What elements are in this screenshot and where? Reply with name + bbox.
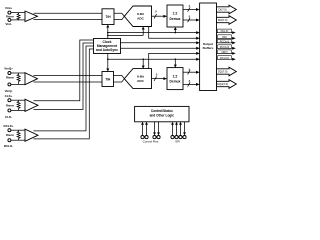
- output buffers block: [200, 3, 217, 91]
- bus ADC Q to demux, width 8: [152, 72, 168, 80]
- SPI pin 4 (output): [183, 122, 186, 139]
- output DCLKQ: [217, 56, 236, 61]
- output RCOut2: [217, 45, 236, 50]
- svg-text:Control Pins: Control Pins: [143, 140, 159, 144]
- output bus arrow DId(7:0): [217, 16, 237, 25]
- control/status block: [135, 106, 189, 121]
- svg-text:RCLK+: RCLK+: [4, 124, 14, 128]
- node VinQ+: [4, 66, 13, 74]
- wire clock to T/H I: [106, 25, 109, 39]
- T/H block (Q channel): [102, 72, 114, 87]
- SPI pin 3 (input): [179, 122, 182, 139]
- svg-text:ORQ: ORQ: [222, 51, 228, 54]
- node VinI-: [5, 18, 11, 25]
- svg-text:Buffers: Buffers: [203, 46, 214, 50]
- wire: [34, 19, 103, 21]
- svg-text:VinI+: VinI+: [5, 6, 12, 10]
- output bus arrow DQd(7:0): [217, 80, 237, 89]
- control pin 4 (output): [157, 122, 160, 139]
- svg-text:Rterm: Rterm: [6, 133, 15, 137]
- svg-text:DI(7:0): DI(7:0): [218, 8, 226, 12]
- control pin 3 (output): [153, 122, 156, 139]
- wire ORI from ADC I: [149, 27, 200, 40]
- resistor Rterm (VinI): [6, 13, 20, 20]
- svg-text:RCLK-: RCLK-: [4, 144, 13, 148]
- svg-text:8-Bit: 8-Bit: [137, 12, 144, 16]
- op-amp buffer (CLK): [25, 99, 38, 111]
- bus ADC I to demux, width 8: [152, 9, 168, 18]
- wire: [11, 72, 25, 74]
- node RCLK+: [4, 124, 14, 132]
- svg-text:T/H: T/H: [105, 77, 111, 81]
- op-amp buffer (VinI): [25, 11, 38, 22]
- control pin 1 (input): [141, 122, 144, 139]
- bus demux Q out DQ, width 8: [183, 67, 200, 74]
- demux 1:2 (Q channel): [167, 68, 183, 90]
- svg-text:RCOut2: RCOut2: [220, 46, 230, 49]
- wire clock to T/H Q: [106, 54, 109, 72]
- svg-text:1:2: 1:2: [173, 74, 178, 78]
- svg-text:ADC: ADC: [137, 17, 144, 21]
- svg-text:ORI: ORI: [222, 36, 227, 39]
- wire: [11, 99, 25, 101]
- SPI pin 1 (input): [171, 122, 174, 139]
- ADC 8-bit (Q channel): [124, 69, 151, 89]
- wire: [11, 129, 25, 131]
- wire: [34, 49, 94, 139]
- wire: [11, 139, 25, 141]
- node VinI+: [5, 6, 12, 14]
- node CLK+: [5, 94, 13, 102]
- svg-text:Rterm: Rterm: [6, 103, 15, 107]
- wire: [11, 83, 25, 85]
- output DCLKI: [217, 29, 236, 34]
- resistor Rterm (RCLK): [6, 130, 20, 140]
- wire: [34, 12, 103, 14]
- resistor Rterm (VinQ): [6, 73, 20, 84]
- wire: [114, 16, 124, 19]
- clock management block U-CLK: [94, 39, 121, 54]
- node RCLK-: [4, 139, 13, 148]
- wire clock to demux I: [174, 27, 177, 33]
- wire clock to ADC Q: [142, 59, 145, 68]
- svg-text:Rterm: Rterm: [6, 14, 15, 18]
- wire clock rail 2: [107, 35, 143, 37]
- SPI pin 2 (input): [175, 122, 178, 139]
- svg-text:1:2: 1:2: [173, 12, 178, 16]
- svg-text:VinQ+: VinQ+: [4, 66, 13, 70]
- bus demux I out DId, width 8: [183, 15, 200, 23]
- bus demux I out DI, width 8: [183, 4, 200, 12]
- wire RCOut2: [121, 47, 200, 50]
- svg-text:CLK-: CLK-: [5, 115, 12, 119]
- svg-text:DQ(7:0): DQ(7:0): [218, 70, 228, 74]
- wire clock to ADC I: [142, 27, 145, 36]
- wire clock to demux Q: [174, 59, 177, 67]
- output ORI: [217, 35, 236, 40]
- wire: [114, 13, 124, 16]
- svg-text:and Other Logic: and Other Logic: [150, 113, 175, 117]
- wire: [34, 46, 94, 131]
- svg-text:DCLKI: DCLKI: [221, 30, 229, 33]
- svg-text:Demux: Demux: [170, 80, 181, 84]
- wire: [34, 43, 94, 110]
- demux 1:2 (I channel): [167, 5, 183, 27]
- ADC 8-bit (I channel): [124, 6, 151, 27]
- svg-text:RCOut1: RCOut1: [220, 40, 230, 43]
- wire DCLKI rail: [107, 31, 200, 34]
- wire: [11, 12, 25, 14]
- svg-text:VinI-: VinI-: [5, 22, 11, 26]
- wire DCLKQ rail: [107, 58, 200, 61]
- svg-text:SPI: SPI: [175, 140, 180, 144]
- svg-text:T/H: T/H: [105, 15, 111, 19]
- output ORQ: [217, 50, 236, 55]
- svg-text:Rterm: Rterm: [6, 76, 15, 80]
- node VinQ-: [5, 83, 13, 93]
- svg-text:8-Bit: 8-Bit: [137, 75, 144, 79]
- control pin 2 (input): [145, 122, 148, 139]
- svg-text:DId(7:0): DId(7:0): [218, 18, 228, 22]
- svg-text:DCLKQ: DCLKQ: [220, 57, 229, 60]
- wire: [114, 76, 125, 79]
- svg-text:CLK+: CLK+: [5, 94, 13, 98]
- output RCOut1: [217, 39, 236, 44]
- resistor Rterm (CLK): [6, 100, 20, 110]
- bus demux Q out DQd, width 8: [183, 79, 200, 86]
- svg-text:DQd(7:0): DQd(7:0): [217, 82, 228, 86]
- svg-text:and AutoSync: and AutoSync: [96, 48, 118, 52]
- svg-text:Demux: Demux: [170, 17, 181, 21]
- wire: [34, 81, 103, 83]
- wire: [34, 40, 94, 101]
- op-amp buffer (VinQ): [25, 73, 38, 85]
- op-amp buffer (RCLK): [25, 129, 38, 141]
- wire RCOut1: [121, 41, 200, 44]
- wire: [11, 19, 25, 21]
- svg-text:VinQ-: VinQ-: [5, 89, 13, 93]
- T/H block (I channel): [102, 9, 114, 25]
- wire ORQ from ADC Q: [149, 52, 200, 69]
- output bus arrow DI(7:0): [217, 5, 237, 14]
- wire: [11, 109, 25, 111]
- svg-text:ADC: ADC: [137, 79, 144, 83]
- node CLK-: [5, 109, 12, 119]
- wire: [34, 75, 103, 77]
- wire: [114, 79, 125, 82]
- output bus arrow DQ(7:0): [217, 67, 237, 76]
